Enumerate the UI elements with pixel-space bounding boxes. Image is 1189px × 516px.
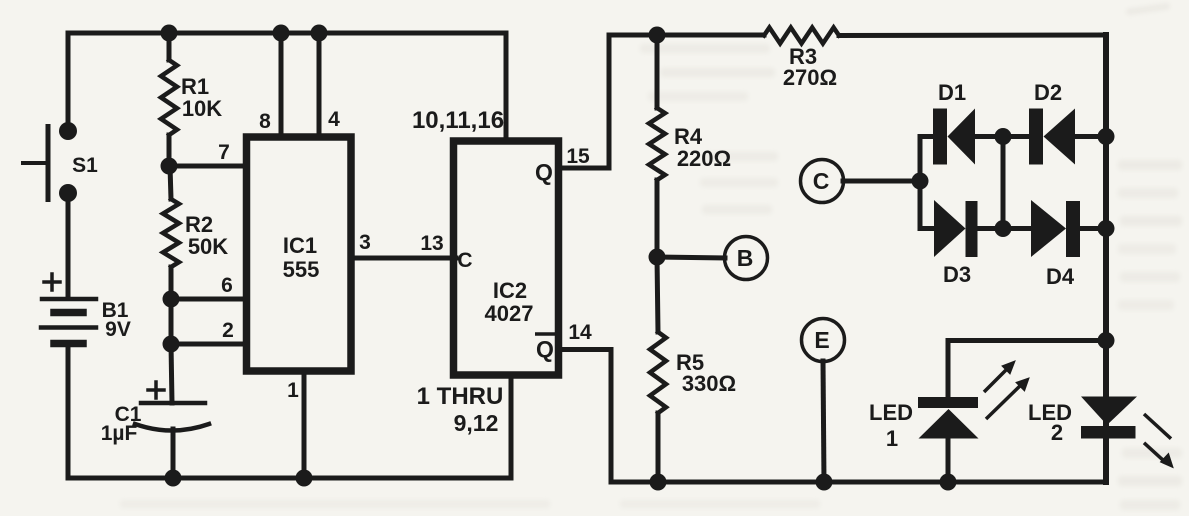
junction dot pin1 bottom rail — [296, 470, 313, 487]
diode D1 — [933, 109, 975, 165]
svg-text:D4: D4 — [1046, 264, 1075, 289]
wire bridge middle leg — [1001, 137, 1006, 229]
capacitor C1 plus sign — [148, 382, 164, 398]
junction dot R1 top — [161, 25, 178, 42]
svg-text:B: B — [737, 245, 754, 271]
LED1 emission arrows — [984, 361, 1029, 419]
svg-text:1 THRU: 1 THRU — [417, 383, 504, 410]
svg-text:8: 8 — [259, 110, 271, 133]
wire right rail — [1103, 35, 1109, 482]
resistor R2 — [163, 199, 179, 267]
wire bridge bottom row — [920, 226, 1106, 231]
wire terminal E to bottom rail — [823, 361, 824, 482]
wire IC2 pins 9,12 to bottom rail — [509, 375, 514, 478]
wire R4 bottom lead to node B — [655, 180, 660, 257]
junction dot C1 bottom rail — [165, 470, 182, 487]
terminal C circle — [801, 160, 844, 203]
wire R2 bottom lead to pin 6 node — [169, 267, 174, 299]
wire node 6 to node 2 — [169, 299, 174, 344]
svg-text:Q: Q — [535, 159, 553, 185]
svg-text:9V: 9V — [105, 318, 131, 341]
junction dot node B — [649, 249, 666, 266]
svg-text:220Ω: 220Ω — [677, 146, 731, 171]
svg-text:13: 13 — [420, 232, 443, 255]
wire bottom rail right section — [611, 480, 1106, 485]
svg-text:7: 7 — [218, 141, 230, 164]
svg-text:6: 6 — [221, 274, 233, 297]
svg-text:Q: Q — [536, 336, 554, 362]
resistor R1 — [161, 60, 177, 135]
capacitor C1 bottom curved plate — [135, 424, 209, 431]
wire S1 to battery — [66, 193, 71, 297]
junction dot R5 bottom rail — [650, 474, 667, 491]
terminal B circle — [725, 237, 768, 280]
svg-text:D1: D1 — [938, 80, 966, 105]
wire LED1 cathode lead — [946, 341, 951, 399]
wire bridge left leg — [918, 137, 923, 229]
resistor R5 — [650, 332, 666, 413]
svg-text:D3: D3 — [943, 262, 971, 287]
LED2 emission arrows — [1144, 414, 1173, 468]
terminal E circle — [802, 319, 845, 362]
svg-text:9,12: 9,12 — [454, 410, 499, 436]
wire R4 top lead — [655, 35, 660, 108]
svg-text:LED: LED — [869, 400, 913, 425]
wire IC1 pin 2 — [171, 342, 246, 347]
svg-text:1µF: 1µF — [101, 422, 138, 445]
wire R5 bottom lead — [656, 413, 661, 482]
resistor R3 — [764, 28, 839, 44]
svg-text:4027: 4027 — [485, 301, 534, 326]
junction dot node C bridge — [912, 173, 929, 190]
wire terminal C to bridge — [843, 179, 920, 184]
junction dot E bottom rail — [816, 474, 833, 491]
wire node B to R5 — [657, 257, 658, 332]
junction dot LED branch right rail — [1098, 332, 1115, 349]
svg-text:D2: D2 — [1034, 80, 1062, 105]
wire bottom rail left section — [68, 476, 511, 481]
junction dot pin8 rail — [273, 25, 290, 42]
wire C1 bottom lead — [171, 429, 176, 478]
junction dot bridge bottom middle — [995, 220, 1012, 237]
switch S1 stem — [21, 161, 48, 165]
diode D4 — [1031, 200, 1080, 257]
svg-text:IC2: IC2 — [493, 278, 527, 303]
Qbar overline — [535, 332, 555, 336]
junction dot pin6 — [163, 291, 180, 308]
wire R1 top lead — [167, 33, 172, 60]
switch S1 plunger bar — [46, 124, 51, 202]
svg-text:15: 15 — [566, 145, 590, 168]
svg-text:10K: 10K — [182, 96, 222, 121]
svg-text:50K: 50K — [188, 234, 228, 259]
wire LED1 top branch — [948, 338, 1106, 343]
svg-text:2: 2 — [222, 319, 234, 342]
junction dot pin4 rail — [311, 25, 328, 42]
svg-text:10,11,16: 10,11,16 — [412, 107, 504, 134]
switch S1 top contact — [59, 122, 77, 140]
svg-text:E: E — [814, 327, 829, 353]
wire top rail left section — [68, 33, 506, 131]
wire IC2 pin 14 — [562, 350, 611, 483]
LED1 — [918, 397, 979, 439]
junction dot bridge top middle — [995, 128, 1012, 145]
wire IC1 pin 4 — [317, 33, 322, 137]
wire node 2 to C1 top — [171, 344, 172, 403]
wire bridge top row — [920, 134, 1106, 139]
svg-text:2: 2 — [1051, 420, 1063, 445]
wire top rail right section — [609, 33, 1106, 39]
resistor R4 — [649, 108, 665, 180]
junction dot bridge top right — [1098, 128, 1115, 145]
wire IC2 pin 15 — [562, 35, 609, 168]
capacitor C1 top plate — [141, 401, 205, 406]
svg-text:330Ω: 330Ω — [682, 371, 736, 396]
svg-text:1: 1 — [886, 426, 898, 451]
diode D2 — [1029, 109, 1075, 165]
switch S1 bottom contact — [59, 184, 77, 202]
op-amp IC1 box — [247, 137, 352, 371]
junction dot bridge bottom right — [1098, 220, 1115, 237]
wire R1 bottom lead — [167, 135, 172, 166]
wire IC1 pin 7 — [169, 164, 246, 169]
junction dot R4 top rail — [649, 27, 666, 44]
wire battery to bottom rail — [66, 345, 71, 478]
svg-text:3: 3 — [359, 231, 371, 254]
wire drop to IC2 pins 10,11,16 — [504, 33, 509, 141]
junction dot pin2 — [163, 336, 180, 353]
junction dot LED1 bottom rail — [940, 474, 957, 491]
svg-text:555: 555 — [283, 257, 320, 282]
svg-text:4: 4 — [328, 108, 340, 131]
battery B1 plates — [41, 299, 96, 344]
junction dot R1 R2 pin7 — [161, 158, 178, 175]
diode D3 — [934, 200, 978, 257]
svg-text:14: 14 — [568, 321, 592, 344]
svg-text:270Ω: 270Ω — [783, 65, 837, 90]
svg-text:C: C — [813, 168, 830, 194]
wire LED1 anode lead — [946, 438, 951, 482]
op-amp IC2 box — [454, 141, 559, 375]
svg-text:C: C — [457, 249, 472, 272]
battery B1 plus sign — [44, 274, 60, 290]
wire IC1 pin 6 — [171, 297, 246, 302]
wire IC1 pin 1 — [302, 375, 307, 478]
svg-text:1: 1 — [287, 379, 299, 402]
svg-text:IC1: IC1 — [283, 233, 317, 258]
svg-text:S1: S1 — [72, 154, 98, 177]
wire R2 top lead — [170, 166, 171, 199]
wire IC1 pin 8 — [279, 33, 284, 137]
LED2 — [1081, 397, 1137, 439]
wire node B to terminal B — [657, 257, 725, 258]
wire IC1 pin3 to IC2 pin13 — [351, 256, 456, 261]
